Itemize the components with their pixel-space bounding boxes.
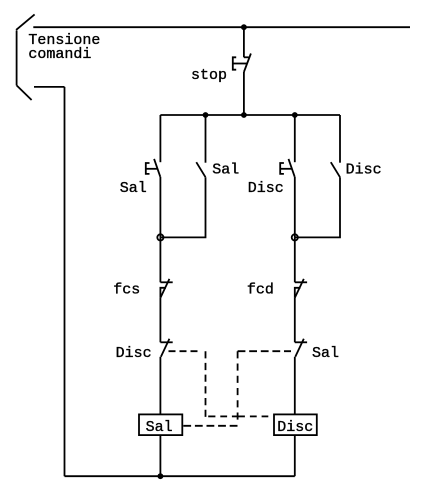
- node top (stop tap): [241, 24, 247, 30]
- wire Disc pushbutton to junction: [294, 177, 296, 238]
- wire coil Disc to bottom rail: [294, 435, 296, 476]
- mechanical link Sal contact to Sal coil (dashed): [183, 351, 291, 426]
- svg-text:Sal: Sal: [120, 180, 147, 197]
- svg-text:Sal: Sal: [312, 345, 339, 362]
- svg-text:Disc: Disc: [116, 345, 152, 362]
- supply break mark lower (diagonal): [17, 85, 32, 100]
- wire Sal pushbutton to junction: [159, 177, 161, 238]
- wire bus to Sal pushbutton: [159, 115, 161, 162]
- node bottom rail: [158, 473, 164, 479]
- wire fcs to Disc interlock: [159, 298, 161, 343]
- wire bus rail: [160, 114, 340, 116]
- contact Disc (NO aux): [331, 162, 340, 177]
- wire bus to Disc pushbutton: [294, 115, 296, 162]
- mechanical link Disc contact to Disc coil (dashed): [169, 351, 269, 417]
- limit switch fcs (NC): [160, 279, 172, 298]
- label Tensione comandi: [28, 32, 100, 63]
- node bus left branch: [203, 112, 209, 118]
- contact Sal (NO aux): [196, 162, 205, 177]
- wire junction to fcd: [294, 237, 296, 282]
- wire junction to fcs: [159, 237, 161, 282]
- wire coil Sal to bottom rail: [159, 435, 161, 476]
- junction circle right: [292, 234, 298, 240]
- supply break mark upper (diagonal): [16, 14, 34, 30]
- node bus right branch: [292, 112, 298, 118]
- wire Disc interlock to coil Sal: [159, 357, 161, 415]
- svg-text:Disc: Disc: [248, 180, 284, 197]
- svg-text:fcd: fcd: [247, 281, 274, 298]
- svg-text:Disc: Disc: [277, 419, 313, 436]
- limit switch fcd (NC): [295, 279, 307, 298]
- wire Disc contact to junction: [295, 177, 340, 237]
- svg-text:Disc: Disc: [346, 162, 382, 179]
- pushbutton Sal (NO): [146, 159, 161, 177]
- wire left rail horizontal: [34, 86, 65, 88]
- svg-text:Sal: Sal: [146, 419, 173, 436]
- wire top rail: [33, 26, 410, 28]
- wire bus to Sal contact: [205, 115, 207, 163]
- node bus stop: [241, 112, 247, 118]
- svg-text:fcs: fcs: [113, 281, 140, 298]
- contact Disc interlock (NC): [160, 339, 172, 357]
- wire left rail vertical: [64, 87, 66, 476]
- wire Sal contact to junction: [160, 177, 205, 237]
- coil Disc: [274, 414, 317, 436]
- wire bottom rail: [65, 475, 295, 477]
- supply bracket vertical: [16, 31, 18, 86]
- wire fcd to Sal interlock: [294, 298, 296, 343]
- pushbutton Disc (NO): [280, 159, 295, 177]
- svg-text:comandi: comandi: [28, 46, 91, 63]
- svg-text:stop: stop: [191, 67, 227, 84]
- pushbutton stop (NC): [233, 54, 251, 73]
- coil Sal: [139, 414, 182, 436]
- wire bus to Disc contact: [339, 115, 341, 163]
- wire Sal interlock to coil Disc: [294, 357, 296, 415]
- wire top rail to stop: [243, 27, 245, 57]
- junction circle left: [157, 234, 163, 240]
- wire stop to bus: [243, 72, 245, 115]
- svg-text:Sal: Sal: [212, 162, 239, 179]
- contact Sal interlock (NC): [295, 339, 307, 357]
